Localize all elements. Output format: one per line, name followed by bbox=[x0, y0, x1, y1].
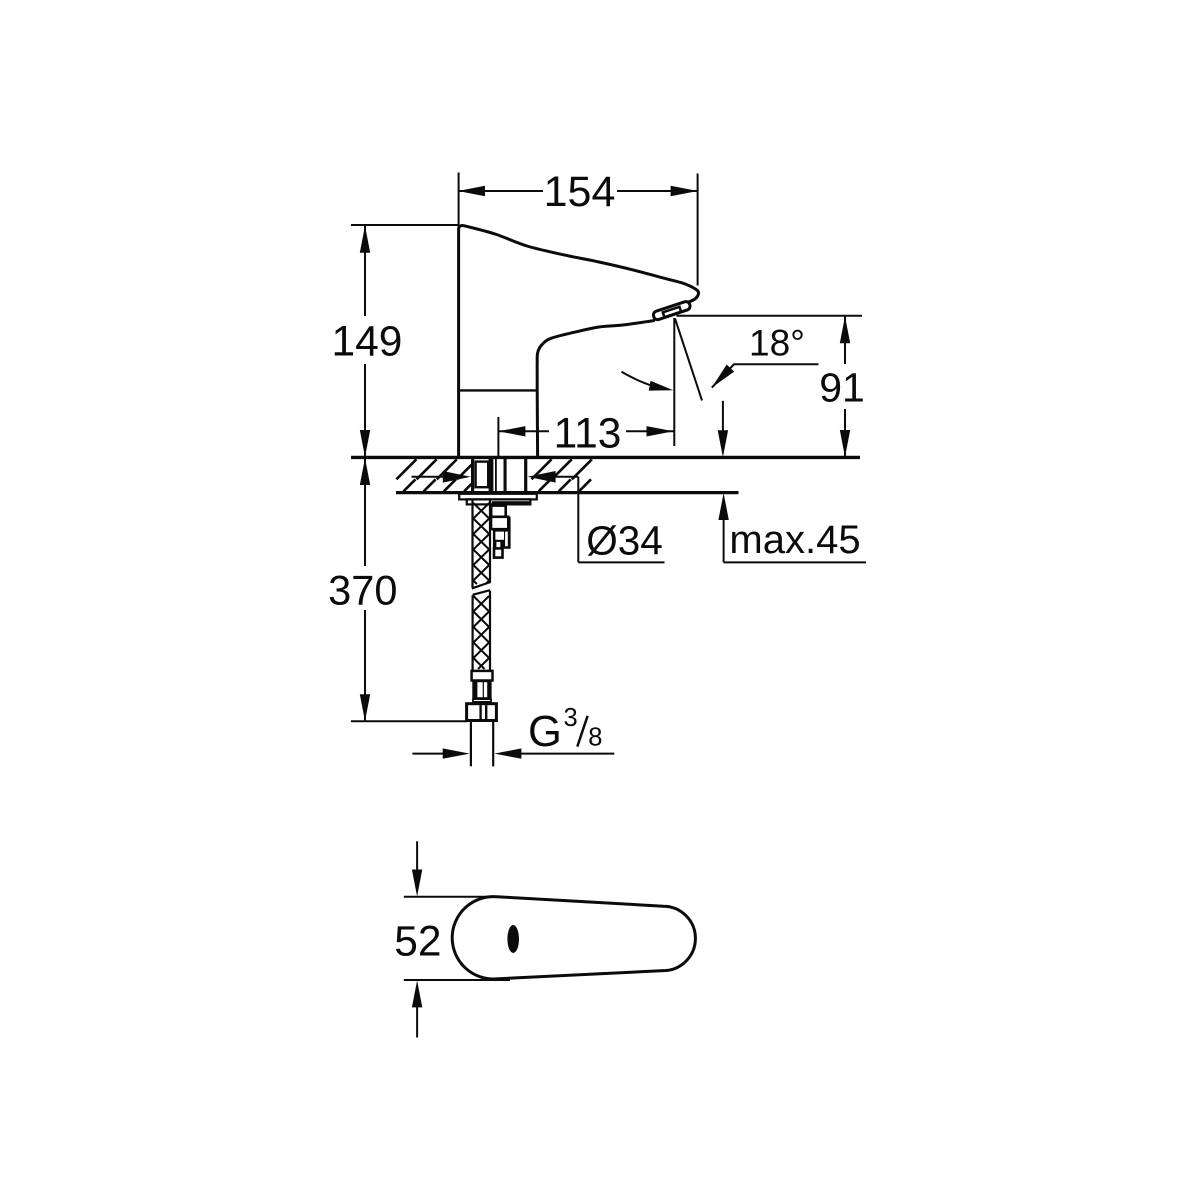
svg-text:91: 91 bbox=[819, 365, 865, 411]
svg-text:149: 149 bbox=[332, 318, 403, 365]
svg-text:max.45: max.45 bbox=[729, 518, 860, 562]
G3/8 union nut bbox=[467, 704, 497, 721]
dimension 154 (spout reach) bbox=[458, 168, 698, 286]
svg-text:52: 52 bbox=[394, 919, 441, 966]
svg-text:Ø34: Ø34 bbox=[586, 518, 663, 564]
connection pipe G3/8 bbox=[471, 721, 493, 767]
svg-text:113: 113 bbox=[554, 411, 622, 458]
fastening flange under counter bbox=[459, 494, 537, 506]
18 degree spray-angle callout bbox=[622, 318, 819, 446]
svg-text:154: 154 bbox=[544, 168, 616, 216]
dimension 370 (hose length) bbox=[328, 458, 467, 721]
svg-text:370: 370 bbox=[328, 567, 397, 614]
svg-text:18°: 18° bbox=[749, 322, 805, 363]
diameter 34 label bbox=[578, 518, 664, 564]
dimension G 3/8 thread bbox=[412, 704, 614, 759]
faucet body outline (side view) bbox=[459, 226, 699, 457]
aerator / outlet nozzle bbox=[652, 301, 691, 321]
faucet base outline (bottom view) bbox=[452, 897, 695, 979]
svg-text:8: 8 bbox=[588, 724, 602, 752]
non-return valve block beside hose bbox=[491, 506, 511, 558]
dimension 52 (base width) bbox=[394, 841, 510, 1037]
dimension 91 (outlet height) bbox=[677, 316, 865, 457]
braided supply hose (upper segment) bbox=[472, 500, 491, 589]
crimped hose end fitting bbox=[472, 671, 493, 702]
max.45 counter thickness dimension bbox=[718, 401, 866, 563]
countertop section with hatching bbox=[351, 457, 860, 492]
svg-text:3: 3 bbox=[564, 704, 578, 732]
braided supply hose (lower segment) bbox=[473, 590, 490, 670]
mounting shank through counter hole bbox=[473, 458, 526, 493]
diameter 34 arrows bbox=[412, 471, 579, 562]
dimension 113 (spout outlet offset) bbox=[498, 411, 673, 458]
dimension 149 (total height) bbox=[332, 225, 459, 457]
sensor window (bottom view) bbox=[507, 925, 519, 953]
svg-text:G: G bbox=[528, 708, 562, 756]
